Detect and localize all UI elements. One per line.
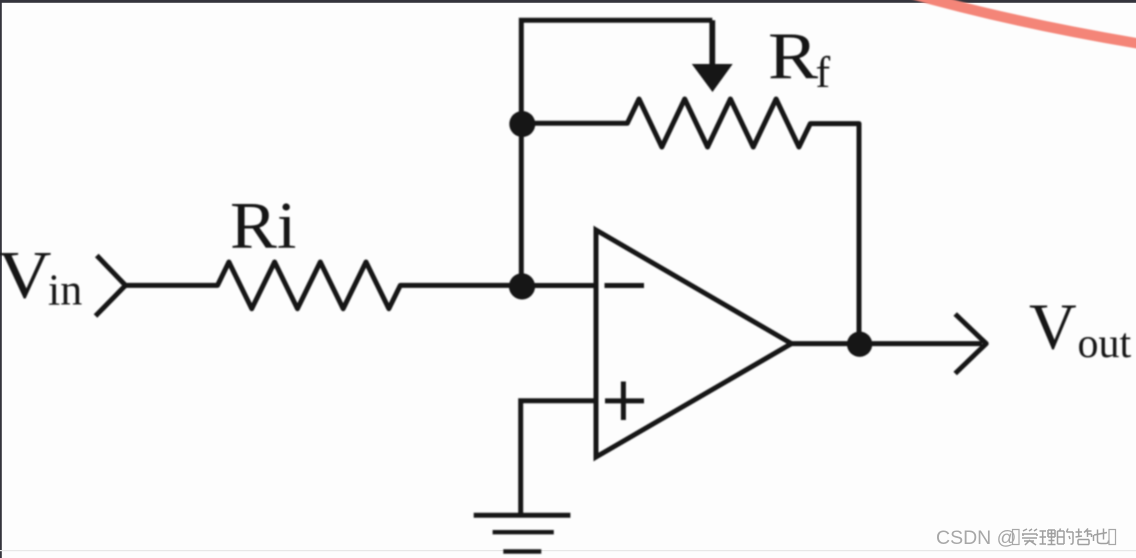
svg-text:out: out [1078,321,1132,367]
svg-text:in: in [48,266,82,315]
svg-text:R: R [768,19,819,92]
svg-text:f: f [816,48,831,97]
svg-text:V: V [1029,290,1077,363]
svg-text:V: V [0,237,52,312]
svg-text:Ri: Ri [230,188,296,262]
svg-text:CSDN @: CSDN @ [936,527,1016,549]
